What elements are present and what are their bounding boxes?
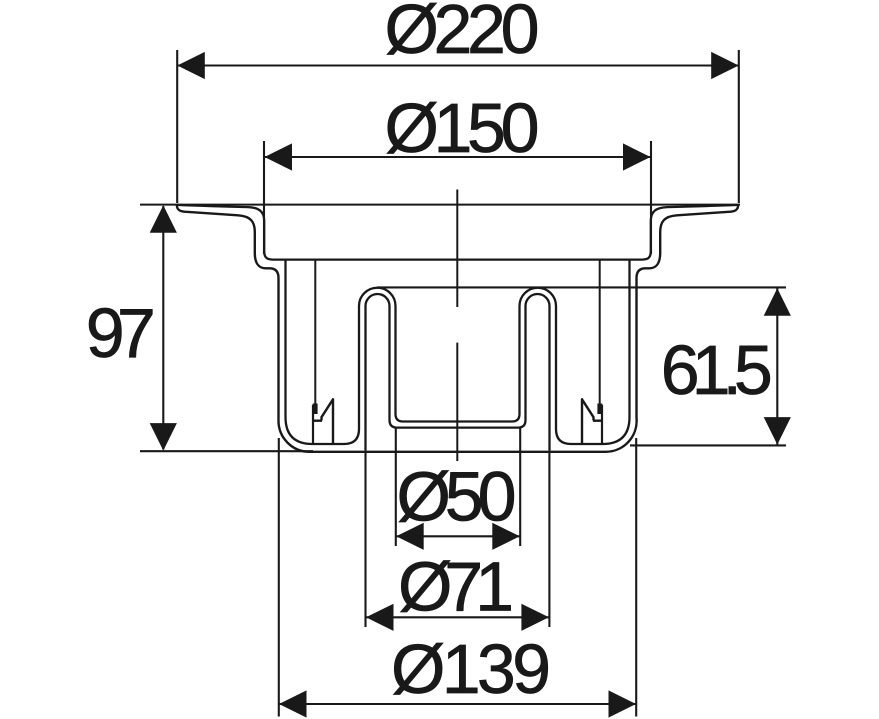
svg-text:61.5: 61.5: [661, 331, 773, 409]
dimension D150: extension lines: [264, 141, 651, 254]
wire 61.5 bottom extension line: [630, 444, 786, 446]
svg-text:97: 97: [86, 294, 156, 372]
svg-text:Ø139: Ø139: [391, 630, 551, 708]
inner boundary: left wall inner line, channel floor, fold arch outer, cup inner: [286, 260, 630, 444]
dimension D139: line: [279, 703, 636, 705]
dimension D220: line: [178, 64, 738, 66]
clip hook left: [312, 405, 314, 444]
dimension D71: arrowheads: [366, 604, 394, 631]
dimension D139: extension lines: [279, 438, 636, 717]
wire top reference line y=204.5 (flange rim tangent / 97 top extension): [140, 204, 740, 206]
dimension D50: line: [396, 535, 520, 537]
dimension D139: arrowheads: [279, 690, 307, 717]
dimension D71: extension lines: [366, 451, 550, 627]
dimension D50: extension lines: [396, 427, 520, 546]
svg-text:Ø50: Ø50: [397, 457, 517, 535]
svg-text:Ø150: Ø150: [385, 89, 540, 167]
wire bottom extension line (97 dimension bottom reference): [140, 450, 313, 452]
fold inner surface: riser inner lines, arch inner arcs, cup outer surface: [366, 294, 550, 451]
body inner surface: flange underside, seat line, channel floors, cup interior: [177, 205, 739, 260]
clip hook right: [601, 405, 603, 444]
dimension 61.5: line: [776, 288, 778, 445]
dimension 61.5: arrowheads: [764, 288, 791, 316]
dimension D50: arrowheads: [396, 523, 424, 550]
dimension D71: line: [366, 616, 549, 618]
dimension D150: arrowheads: [265, 143, 293, 170]
dimension D150: line: [265, 156, 651, 158]
dimension 97: arrowheads: [150, 205, 177, 233]
hanger strap right: [599, 260, 601, 413]
dimension 97: line: [162, 206, 164, 450]
dimension D220: arrowheads: [177, 52, 205, 79]
body outer surface profile (flange top, S-bends, outer walls, bottom): [177, 205, 738, 452]
svg-text:Ø220: Ø220: [385, 0, 540, 68]
hanger strap left: [314, 260, 316, 413]
dimension D220: extension lines: [177, 50, 739, 203]
centerline: [456, 190, 458, 462]
svg-text:Ø71: Ø71: [398, 548, 514, 626]
wire arch tangent line / 61.5 top extension: [377, 286, 786, 288]
